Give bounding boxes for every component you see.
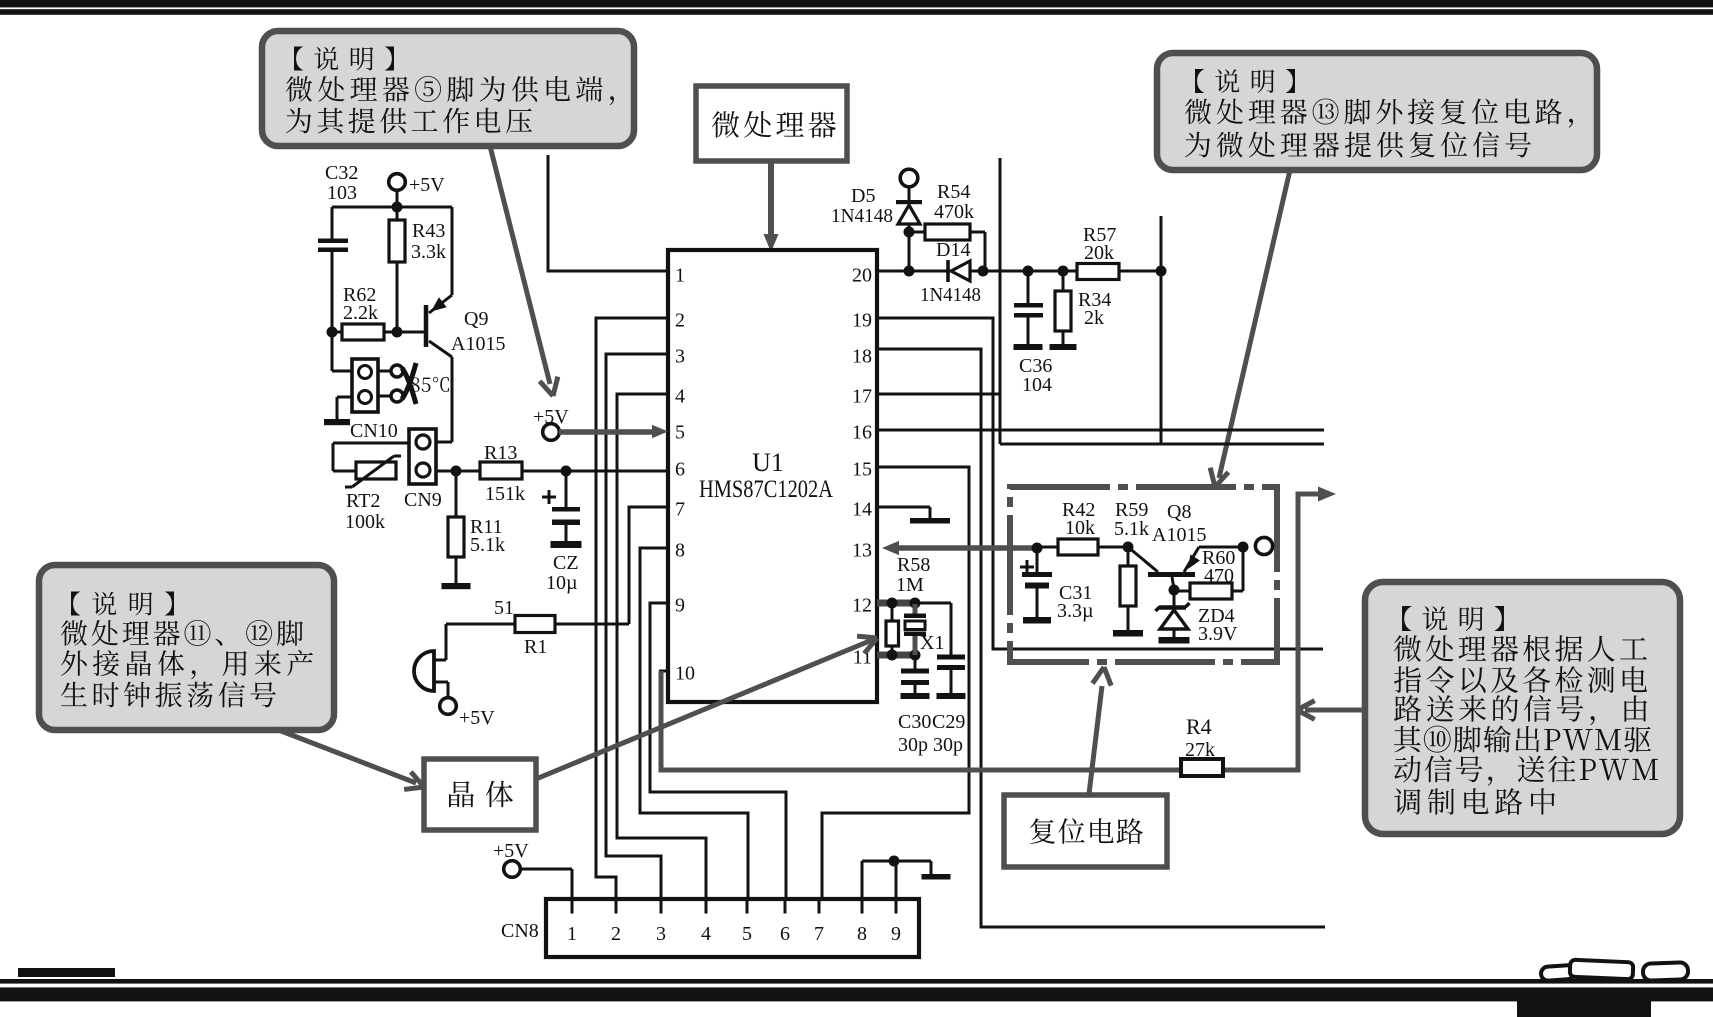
CN8 label	[501, 920, 539, 942]
wire pin17 line	[877, 158, 1324, 444]
note box 2 (pin 13 reset note)	[1157, 53, 1597, 170]
svg-text:Q9: Q9	[464, 308, 488, 330]
svg-text:20k: 20k	[1084, 242, 1114, 264]
svg-text:1: 1	[675, 265, 685, 287]
svg-text:3.3µ: 3.3µ	[1057, 600, 1094, 622]
svg-text:9: 9	[891, 923, 901, 945]
wire +5V rail	[332, 190, 452, 213]
svg-text:9: 9	[675, 595, 685, 617]
wire pin12 to C29	[917, 603, 951, 655]
CN8 pin numbers	[567, 923, 901, 945]
svg-text:2k: 2k	[1084, 307, 1104, 329]
IC U1 HMS87C1202A	[668, 250, 877, 702]
+5V terminal top	[389, 174, 446, 196]
pin14 stub	[877, 507, 950, 524]
svg-text:470: 470	[1204, 565, 1234, 587]
thermal switch 85C	[378, 363, 449, 404]
svg-text:6: 6	[675, 459, 685, 481]
wire pin9 to CN8 pin6	[650, 603, 786, 899]
resistor R59	[1113, 499, 1149, 637]
svg-text:C29: C29	[932, 711, 965, 733]
PWM signal line from pin10	[661, 486, 1336, 770]
svg-text:2.2k: 2.2k	[343, 302, 378, 324]
svg-text:C32: C32	[325, 162, 358, 184]
wire pin12 stub	[877, 598, 921, 609]
wire pin7 to R1	[629, 507, 668, 624]
connector CN8	[546, 899, 919, 957]
svg-text:470k: 470k	[934, 201, 974, 223]
+5V terminal pin5	[533, 406, 569, 440]
resistor R34	[1050, 271, 1112, 350]
svg-text:1M: 1M	[896, 574, 924, 596]
svg-text:6: 6	[780, 923, 790, 945]
svg-text:16: 16	[852, 422, 872, 444]
wire pin18 down right	[877, 349, 1325, 927]
svg-text:15: 15	[852, 459, 872, 481]
svg-text:4: 4	[701, 923, 711, 945]
svg-text:U1: U1	[752, 448, 784, 477]
wire pin6 line	[436, 466, 668, 477]
reset circuit dashed box	[1010, 487, 1277, 662]
svg-text:CZ: CZ	[553, 552, 579, 574]
wire pin8 to CN8 pin5	[640, 548, 748, 899]
svg-text:HMS87C1202A: HMS87C1202A	[699, 474, 833, 503]
svg-text:27k: 27k	[1185, 739, 1215, 761]
capacitor C36	[1014, 271, 1053, 396]
transistor Q9 A1015	[426, 207, 505, 442]
svg-text:30p: 30p	[898, 734, 928, 756]
label box crystal arrow to X1	[536, 636, 877, 779]
diode D14 1N4148	[920, 239, 981, 306]
svg-text:R13: R13	[484, 442, 517, 464]
diode D5 1N4148	[831, 169, 922, 271]
note box 2 arrow	[1210, 170, 1290, 487]
resistor R4	[1181, 714, 1223, 776]
wire pin16 line	[877, 429, 1324, 432]
svg-text:10k: 10k	[1065, 517, 1095, 539]
label box microprocessor arrow	[763, 161, 778, 252]
svg-text:3: 3	[656, 923, 666, 945]
ground CN10	[324, 397, 352, 425]
+5V terminal IR	[440, 698, 496, 729]
svg-text:5: 5	[675, 422, 685, 444]
svg-text:RT2: RT2	[346, 490, 380, 512]
svg-text:R4: R4	[1186, 714, 1212, 739]
svg-text:103: 103	[327, 182, 357, 204]
terminal circle Q8 collector	[1255, 537, 1272, 554]
svg-text:30p: 30p	[933, 734, 963, 756]
resistor R62	[327, 284, 425, 340]
svg-text:CN8: CN8	[501, 920, 539, 942]
note box 1 arrow	[490, 146, 558, 396]
svg-text:+5V: +5V	[493, 840, 529, 862]
svg-text:R1: R1	[524, 636, 547, 658]
U1 pin numbers right	[852, 265, 872, 669]
resistor R57	[1077, 224, 1119, 280]
crystal X1	[904, 604, 944, 655]
label box crystal (jingti)	[424, 759, 536, 830]
resistor R11	[442, 471, 506, 589]
svg-text:2: 2	[675, 310, 685, 332]
svg-text:13: 13	[852, 540, 872, 562]
svg-text:5: 5	[742, 923, 752, 945]
svg-text:1N4148: 1N4148	[831, 205, 893, 227]
wire pin19 down right	[877, 318, 1323, 649]
svg-text:14: 14	[852, 499, 872, 521]
svg-text:2: 2	[611, 923, 621, 945]
svg-text:10µ: 10µ	[546, 572, 578, 594]
wire pin4 to CN8 pin4	[617, 394, 706, 899]
label box reset circuit (fuwei dianlu)	[1004, 795, 1167, 867]
capacitor C30	[898, 655, 931, 756]
label box microprocessor	[696, 86, 847, 161]
resistor R43	[389, 207, 446, 332]
svg-text:18: 18	[852, 346, 872, 368]
note box 3 arrow	[1297, 701, 1365, 720]
resistor R54	[909, 181, 985, 271]
connector CN10	[332, 359, 398, 442]
capacitor C29	[932, 655, 966, 757]
svg-text:A1015: A1015	[451, 333, 505, 355]
svg-text:R43: R43	[412, 220, 445, 242]
note box 4 arrow into crystal box	[276, 729, 424, 789]
svg-text:X1: X1	[920, 632, 944, 654]
svg-text:1N4148: 1N4148	[920, 284, 981, 306]
svg-text:3.3k: 3.3k	[411, 241, 446, 263]
svg-text:A1015: A1015	[1152, 524, 1206, 546]
resistor R58 1M	[886, 554, 930, 655]
resistor R13	[480, 442, 525, 505]
resistor R60	[1169, 542, 1249, 600]
wire CN8 pins 8,9 ground	[862, 856, 951, 900]
capacitor CZ	[542, 471, 582, 594]
svg-text:Q8: Q8	[1167, 501, 1191, 523]
wire vertical at x=1161	[1160, 216, 1163, 444]
svg-text:10: 10	[675, 663, 695, 685]
wire pin10 stub	[659, 670, 668, 673]
svg-text:+5V: +5V	[409, 174, 445, 196]
svg-text:CN9: CN9	[404, 489, 442, 511]
svg-text:1: 1	[567, 923, 577, 945]
transistor Q8 A1015	[1128, 501, 1243, 589]
arrow reset line into pin13	[882, 541, 1037, 555]
resistor R1	[446, 597, 629, 658]
svg-text:8: 8	[857, 923, 867, 945]
U1 pin numbers left	[675, 265, 695, 685]
note box 1 (pin 5 power note)	[262, 31, 634, 146]
wire pin2 to CN8 pin2	[596, 318, 668, 899]
svg-text:3: 3	[675, 346, 685, 368]
wire pin15 to CN8 pin7	[822, 467, 969, 899]
svg-text:+5V: +5V	[459, 707, 495, 729]
svg-text:D14: D14	[936, 239, 970, 261]
page top rule bars	[0, 0, 1713, 15]
capacitor C31	[1020, 543, 1094, 624]
thermistor RT2	[333, 443, 409, 533]
svg-text:5.1k: 5.1k	[1114, 518, 1149, 540]
svg-text:104: 104	[1022, 374, 1052, 396]
wire +5V to CN8 pin1	[520, 869, 572, 899]
wire pin11 stub	[877, 650, 921, 661]
zener diode ZD4 3.9V	[1156, 590, 1239, 645]
svg-text:19: 19	[852, 310, 872, 332]
svg-text:100k: 100k	[345, 511, 385, 533]
svg-text:20: 20	[852, 265, 872, 287]
svg-text:7: 7	[814, 923, 824, 945]
wire pin20 line	[877, 266, 1167, 277]
arrow +5V into pin 5	[559, 425, 668, 438]
svg-text:R54: R54	[937, 181, 970, 203]
wire pin1 up-left	[548, 155, 668, 271]
wire pin3 to CN8 pin3	[606, 354, 668, 899]
svg-text:R58: R58	[897, 554, 930, 576]
svg-text:4: 4	[675, 386, 685, 408]
page bottom rule bars	[0, 968, 1713, 1017]
note box 3 (PWM output note)	[1365, 582, 1680, 834]
IR receiver	[414, 624, 448, 698]
resistor R42	[1037, 499, 1128, 555]
svg-text:7: 7	[675, 499, 685, 521]
svg-text:D5: D5	[851, 185, 875, 207]
svg-text:5.1k: 5.1k	[470, 534, 505, 556]
connector CN9	[404, 429, 442, 511]
svg-text:C30: C30	[898, 711, 931, 733]
capacitor C32	[318, 162, 358, 371]
svg-text:3.9V: 3.9V	[1198, 623, 1238, 645]
svg-text:12: 12	[852, 595, 872, 617]
svg-text:151k: 151k	[485, 483, 525, 505]
chalk decoration	[1541, 960, 1689, 981]
svg-text:17: 17	[852, 386, 872, 408]
svg-text:CN10: CN10	[350, 420, 398, 442]
label box reset circuit arrow	[1089, 667, 1111, 794]
+5V terminal CN8	[493, 840, 529, 877]
svg-text:51: 51	[494, 597, 514, 619]
note box 4 (crystal oscillator note)	[39, 565, 334, 730]
svg-text:8: 8	[675, 540, 685, 562]
